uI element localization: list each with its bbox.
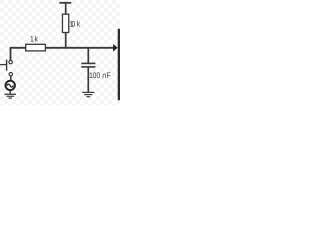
- label 100 nF: [90, 72, 111, 78]
- pushbutton switch plunger: [0, 64, 7, 66]
- wire 10 k resistor to node: [65, 33, 67, 49]
- wire node to capacitor: [87, 48, 89, 63]
- right edge scrollbar thumb: [118, 29, 120, 101]
- output arrow (signal out): [113, 44, 118, 52]
- ground (left, below source): [4, 94, 16, 98]
- AC source V1 (circle): [6, 81, 15, 90]
- main horizontal wire right segment: [45, 47, 113, 49]
- ground (right, below capacitor): [82, 92, 94, 96]
- resistor 10 k (vertical box): [62, 14, 68, 32]
- resistor 1 k (horizontal box): [26, 44, 46, 51]
- main horizontal wire left segment: [10, 47, 27, 49]
- power rail bar (supply): [59, 2, 71, 4]
- pushbutton switch contact (top): [9, 60, 12, 63]
- wire capacitor to ground: [87, 68, 89, 93]
- label 1 k: [31, 36, 38, 42]
- pushbutton switch actuator bar: [6, 60, 8, 71]
- capacitor C1 (100 nF) plates: [81, 63, 95, 67]
- wire down to switch: [10, 48, 12, 61]
- AC source V1 sine wave: [7, 84, 13, 87]
- wire supply rail to 10 k resistor: [65, 3, 67, 15]
- wire source to ground: [9, 90, 11, 94]
- wire switch to source: [10, 76, 12, 81]
- pushbutton switch contact (bottom): [9, 73, 12, 76]
- label 10 k: [70, 21, 80, 27]
